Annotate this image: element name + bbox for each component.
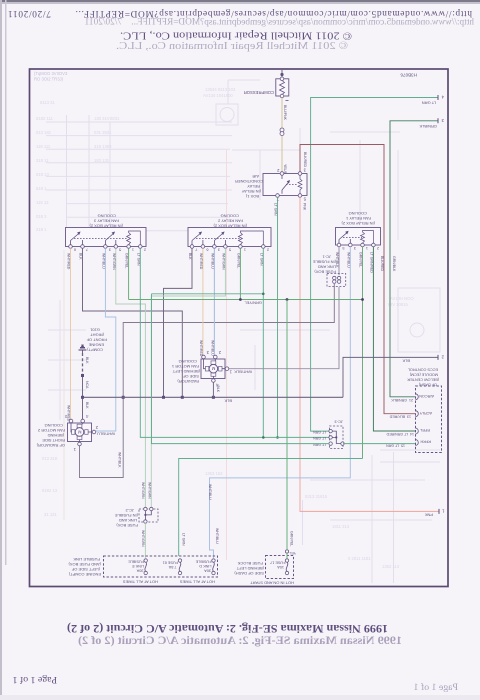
svg-text:COOLING: COOLING [179, 359, 197, 364]
svg-text:JC-3: JC-3 [334, 420, 343, 425]
svg-text:1: 1 [132, 248, 134, 252]
svg-text:FRONT OF: FRONT OF [86, 338, 107, 343]
svg-text:M: M [78, 429, 82, 434]
svg-text:FAN RELAY 2: FAN RELAY 2 [217, 219, 243, 224]
svg-text:8313 31815: 8313 31815 [305, 494, 328, 499]
ghost page number mirrored [414, 682, 458, 693]
JC-3 joint connector [313, 420, 344, 449]
wire compressor to A/C relay (BLU/RED, YEL/BLK) [277, 98, 288, 179]
svg-text:FUSE 61: FUSE 61 [163, 561, 178, 565]
svg-text:ECCS CONTROL: ECCS CONTROL [408, 368, 438, 372]
svg-text:WHT/GRN: WHT/GRN [148, 482, 152, 499]
wire LT GRN JC-3 line3 [152, 294, 330, 444]
svg-text:BLK: BLK [188, 253, 192, 260]
svg-text:(BEHIND LEFT: (BEHIND LEFT [172, 369, 200, 374]
svg-text:M: M [211, 366, 215, 371]
svg-text:(BELOW CENTER: (BELOW CENTER [407, 378, 439, 382]
svg-text:2: 2 [267, 248, 269, 252]
wire BLK motor1 to bus [213, 382, 220, 397]
svg-text:13534 8313 103: 13534 8313 103 [205, 87, 236, 92]
svg-text:© 2011 Mitchell Repair Informa: © 2011 Mitchell Repair Information Co., … [116, 40, 348, 52]
relay2 wire WHT/RED to motor1 [199, 248, 203, 357]
svg-text:3: 3 [109, 248, 111, 252]
svg-text:018 3: 018 3 [36, 214, 47, 219]
svg-text:5: 5 [229, 248, 231, 252]
svg-text:8182 111: 8182 111 [36, 116, 54, 121]
svg-text:BLK: BLK [402, 358, 410, 363]
svg-text:LT GRN/RED: LT GRN/RED [369, 252, 373, 273]
page number [13, 674, 57, 685]
svg-text:GRN/YEL: GRN/YEL [236, 253, 240, 268]
wire BLK ECM ground to bus [343, 354, 444, 397]
svg-text:LT GRN: LT GRN [274, 203, 278, 216]
ECM [407, 368, 441, 453]
svg-text:LT GRN: LT GRN [313, 436, 326, 440]
svg-text:(IN RELAY BOX 2): (IN RELAY BOX 2) [213, 224, 247, 229]
svg-text:HOT AT ALL TIMES: HOT AT ALL TIMES [180, 580, 215, 585]
svg-text:130 31VS831: 130 31VS831 [94, 116, 120, 121]
svg-text:(IN RELAY BOX 2): (IN RELAY BOX 2) [341, 221, 375, 226]
svg-text:Page 1 of 1: Page 1 of 1 [13, 674, 57, 685]
svg-text:BLK: BLK [85, 402, 89, 409]
svg-text:BLK: BLK [216, 386, 220, 393]
svg-text:http://www.ondemand5.com/mric/: http://www.ondemand5.com/mric/common/asp… [8, 8, 472, 18]
svg-text:LINK D: LINK D [199, 564, 211, 568]
wire BLK dashed ground lead [81, 353, 89, 421]
fuse block (dash) with fuse 17 [234, 550, 296, 586]
ground bus BLK horizontal [81, 396, 343, 404]
svg-text:6: 6 [206, 248, 208, 252]
ghost of title (mirrored) [78, 633, 402, 647]
fusible link D [212, 559, 215, 562]
svg-text:COOLING: COOLING [98, 214, 116, 219]
svg-text:21 GRN/BLK: 21 GRN/BLK [391, 398, 413, 402]
svg-text:AIR: AIR [252, 174, 259, 179]
svg-text:BLK: BLK [224, 398, 232, 403]
svg-text:FAN MOTOR 2: FAN MOTOR 2 [37, 428, 65, 433]
svg-text:GRN/BLK: GRN/BLK [392, 256, 396, 272]
svg-text:118 111: 118 111 [36, 144, 51, 149]
svg-text:RELAY: RELAY [247, 184, 260, 189]
fuse 61 [178, 559, 181, 562]
relay2 wire WHT/BLU to motor1 [210, 248, 214, 356]
svg-text:OF DASH): OF DASH) [418, 383, 437, 387]
svg-text:COOLING: COOLING [221, 214, 239, 219]
svg-text:ENGINE COMPT): ENGINE COMPT) [68, 572, 101, 577]
svg-text:1: 1 [244, 248, 246, 252]
svg-text:031 3831: 031 3831 [94, 130, 112, 135]
svg-text:8182 13: 8182 13 [42, 488, 58, 493]
svg-text:013 318: 013 318 [42, 456, 58, 461]
scan edge shading [0, 0, 480, 2]
svg-text:10A: 10A [277, 565, 284, 569]
cooling fan relay 3 [66, 214, 147, 252]
fuse link E [144, 559, 147, 562]
svg-text:BLU/PNK: BLU/PNK [283, 105, 287, 121]
GRN/YEL bus [129, 298, 364, 305]
svg-text:GRN/YEL: GRN/YEL [125, 253, 129, 268]
svg-text:(TqMOO 3VIIOV3: (TqMOO 3VIIOV3 [34, 71, 68, 76]
svg-text:6: 6 [74, 248, 76, 252]
svg-text:LT GRN: LT GRN [313, 442, 326, 446]
relay1 wire WHT/BLU to fusible link D [208, 247, 350, 558]
svg-text:30A: 30A [204, 569, 211, 573]
svg-text:1353 153: 1353 153 [205, 471, 223, 476]
relay3 wire GRN/YEL to bus [125, 248, 129, 299]
relay2 wire BLK to ground bus [164, 248, 193, 397]
svg-text:1999 Nissan Maxima SE-Fig. 2:: 1999 Nissan Maxima SE-Fig. 2: Automatic … [78, 633, 402, 647]
svg-text:LINK AND: LINK AND [119, 518, 137, 523]
relay3 wire LT GRN to JC-3 line [136, 248, 329, 437]
svg-text:013 181: 013 181 [36, 130, 52, 135]
ghost bleedthrough layer [46, 80, 440, 583]
svg-text:(IN FUSIBLE: (IN FUSIBLE [115, 513, 138, 518]
svg-text:WHT/BLU: WHT/BLU [210, 253, 214, 269]
svg-text:LT GRN: LT GRN [182, 533, 186, 546]
footer url line [8, 8, 472, 18]
svg-text:SIDE OF: SIDE OF [182, 374, 199, 379]
svg-text:GRN/YEL: GRN/YEL [359, 252, 363, 267]
svg-text:WHT/RED: WHT/RED [199, 340, 203, 357]
relay1 wire WHT/BLK through JC-1 to motor1 [228, 247, 339, 369]
svg-text:RFRL: RFRL [420, 428, 430, 432]
relay3 wire WHT/GRN to JC-2 [112, 248, 146, 507]
relay1 wire LT GRN/RED to ECM RFRL [369, 247, 415, 436]
svg-text:118 13: 118 13 [36, 200, 49, 205]
svg-text:BLK: BLK [85, 357, 89, 364]
svg-text:FUSE BOX): FUSE BOX) [314, 270, 336, 275]
cooling fan relay 1 [336, 211, 381, 250]
svg-text:15 LT GRN: 15 LT GRN [386, 444, 405, 448]
svg-text:1353 113: 1353 113 [382, 564, 400, 569]
svg-text:8113 31: 8113 31 [40, 100, 55, 105]
svg-text:WHT/BLU: WHT/BLU [215, 528, 219, 544]
svg-text:FUSIBLE: FUSIBLE [128, 560, 144, 564]
svg-text:2: 2 [377, 246, 379, 250]
svg-text:BOX 1): BOX 1) [245, 194, 259, 199]
diagram frame [30, 69, 449, 587]
svg-text:318 11: 318 11 [36, 158, 49, 163]
svg-text:AV134 1041800: AV134 1041800 [203, 93, 233, 98]
wire LT GRN fuse 61 to relay1 [179, 459, 363, 557]
GRN/YEL branch to fuse 17 [287, 300, 294, 552]
inline connector [280, 128, 284, 132]
svg-text:HOT IN ON AND START: HOT IN ON AND START [250, 581, 294, 586]
svg-text:318 1383: 318 1383 [94, 144, 112, 149]
svg-text:COOLING: COOLING [349, 211, 367, 216]
svg-text:7: 7 [86, 248, 88, 252]
fusible link and fuse box (engine compt) [68, 556, 218, 585]
svg-text:WHT/GRN: WHT/GRN [112, 253, 116, 270]
svg-text:SIDE OF DASH): SIDE OF DASH) [234, 571, 264, 576]
svg-text:LT GRN: LT GRN [259, 253, 263, 266]
page title [67, 622, 388, 636]
svg-text:RIGHT SIDE: RIGHT SIDE [42, 438, 65, 443]
svg-text:LT GRN: LT GRN [136, 253, 140, 266]
svg-text:HOT AT ALL TIMES: HOT AT ALL TIMES [123, 580, 158, 585]
svg-text:JC-1: JC-1 [322, 255, 331, 260]
svg-text:(LEFT SIDE OF: (LEFT SIDE OF [71, 567, 100, 572]
svg-text:Page 1 of 1: Page 1 of 1 [414, 682, 458, 693]
svg-text:GRN/YEL: GRN/YEL [244, 301, 262, 306]
relay2 wire LT GRN to JC-3 pin1 [152, 248, 265, 438]
JC-2 joint connector [115, 507, 158, 558]
svg-text:HIV 10815: HIV 10815 [388, 302, 408, 307]
svg-text:COMPRESSOR: COMPRESSOR [244, 90, 274, 95]
svg-text:31 131: 31 131 [44, 512, 57, 517]
svg-text:FUSIBLE LINK: FUSIBLE LINK [73, 557, 100, 562]
svg-text:FUSE BLOCK: FUSE BLOCK [237, 561, 263, 566]
svg-text:(IN RELAY: (IN RELAY [241, 189, 261, 194]
svg-text:JC-2: JC-2 [125, 508, 134, 513]
svg-text:(BEHIND: (BEHIND [47, 433, 64, 438]
svg-text:WHT/GRN: WHT/GRN [141, 530, 145, 547]
cooling fan motor 2 [36, 414, 96, 452]
svg-text:30A: 30A [136, 569, 143, 573]
svg-text:LT GRN: LT GRN [313, 430, 326, 434]
svg-text:7: 7 [195, 248, 197, 252]
wire WHT/BLK motor2 bottom to ground bus [80, 284, 335, 478]
svg-text:ACRLY: ACRLY [419, 411, 432, 415]
svg-text:3: 3 [218, 248, 220, 252]
svg-text:WHT/BLU: WHT/BLU [346, 252, 350, 268]
footer copyright line [120, 30, 352, 42]
relay2 wire WHT/GRN to JC-2 and fuse [141, 248, 225, 547]
svg-text:LINK AND: LINK AND [318, 265, 336, 270]
wire LT GRN JC-3 output to ECM RFRH [343, 444, 415, 448]
svg-text:PNK: PNK [424, 512, 433, 517]
svg-text:(IN FUSIBLE: (IN FUSIBLE [313, 260, 336, 265]
cooling fan relay 2 [188, 214, 271, 252]
svg-text:FAN MOTOR 1: FAN MOTOR 1 [171, 364, 199, 369]
svg-text:WHT/RED: WHT/RED [199, 253, 203, 270]
svg-text:H3B076: H3B076 [400, 73, 417, 78]
svg-text:0 2811 1181: 0 2811 1181 [348, 556, 371, 561]
relay2 wire GRN/YEL to bus [236, 248, 240, 299]
wire GRN/BLK off-page pin 3 to ECM AIRCON [390, 118, 444, 402]
svg-text:LT GRN: LT GRN [422, 101, 436, 106]
cooling fan motor 1 [171, 350, 252, 388]
svg-text:ENGINE: ENGINE [88, 343, 104, 348]
svg-text:WHT/BLU: WHT/BLU [210, 340, 214, 356]
svg-text:BLK/RED: BLK/RED [380, 256, 384, 271]
svg-text:FAN RELAY 3: FAN RELAY 3 [93, 219, 119, 224]
svg-text:MODULE (ECM): MODULE (ECM) [409, 373, 438, 377]
svg-text:FAN RELAY 1: FAN RELAY 1 [345, 216, 371, 221]
svg-text:FUSE 17: FUSE 17 [270, 561, 285, 565]
svg-text:WHT/BLU: WHT/BLU [97, 432, 115, 437]
svg-text:BLK/RED: BLK/RED [303, 152, 307, 167]
wire LT GRN off-page pin 4 [311, 95, 444, 432]
svg-text:13 BLK/RED: 13 BLK/RED [389, 415, 411, 419]
svg-text:018 13: 018 13 [36, 172, 49, 177]
wire LT GRN below A/C relay to JC-3 [274, 197, 279, 438]
svg-text:WHT/BLK: WHT/BLK [118, 452, 122, 468]
svg-text:WHT/GRN: WHT/GRN [221, 253, 225, 270]
svg-text:5: 5 [342, 246, 344, 250]
svg-text:(IN RELAY BOX 2): (IN RELAY BOX 2) [89, 224, 123, 229]
svg-text:http://www.ondemand5.com/mric/: http://www.ondemand5.com/mric/common/asp… [84, 18, 474, 28]
ghost of copyright (mirrored) [84, 18, 474, 53]
svg-text:(BEHIND LEFT: (BEHIND LEFT [236, 566, 264, 571]
svg-text:3: 3 [354, 246, 356, 250]
svg-text:WHT/RED: WHT/RED [67, 253, 71, 270]
compressor C1 [244, 70, 289, 101]
svg-text:RO 3OI2 TR3J): RO 3OI2 TR3J) [34, 77, 64, 82]
svg-text:1: 1 [366, 246, 368, 250]
svg-text:AIRCON: AIRCON [419, 394, 434, 398]
svg-text:CONDITIONER: CONDITIONER [235, 179, 263, 184]
svg-text:14 LT GRN/RED: 14 LT GRN/RED [386, 432, 414, 436]
svg-text:518 1: 518 1 [36, 186, 47, 191]
svg-text:BLK: BLK [79, 253, 83, 260]
relay3 wire BLK to ground bus [79, 248, 183, 397]
svg-text:1811 313: 1811 313 [332, 524, 350, 529]
svg-text:NCA: NCA [85, 381, 89, 389]
svg-text:WHT/BLK: WHT/BLK [234, 370, 252, 375]
JC-1 joint connector [313, 255, 346, 287]
svg-text:(AND FUSE BOX): (AND FUSE BOX) [68, 562, 101, 567]
svg-text:218 1: 218 1 [36, 227, 47, 232]
svg-text:FUSIBLE: FUSIBLE [195, 560, 211, 564]
svg-text:COMPT): COMPT) [87, 348, 103, 353]
svg-text:AV13H NOO: AV13H NOO [390, 296, 414, 301]
MAIN DIAGRAM [36, 70, 444, 586]
svg-text:WHT/BLU: WHT/BLU [208, 484, 212, 500]
svg-text:YEL: YEL [289, 551, 296, 555]
relay1 wire GRN/YEL joins bus [359, 247, 363, 459]
svg-text:COOLING: COOLING [45, 423, 63, 428]
svg-text:7.5A: 7.5A [168, 565, 176, 569]
svg-text:183 131: 183 131 [94, 158, 110, 163]
svg-text:RADIATOR): RADIATOR) [177, 379, 199, 384]
A/C relay (air conditioner relay) [235, 168, 307, 202]
svg-text:WHT/GRN: WHT/GRN [141, 482, 145, 499]
svg-text:(RIGHT: (RIGHT [90, 333, 104, 338]
svg-text:FUSE BOX): FUSE BOX) [116, 523, 138, 528]
svg-text:GRN/BLK: GRN/BLK [419, 124, 437, 129]
svg-text:PNK: PNK [303, 203, 307, 211]
relay3 wire WHT/BLU to motor2 right pin [95, 248, 116, 436]
svg-text:2: 2 [144, 248, 146, 252]
svg-text:OF RADIATOR): OF RADIATOR) [36, 443, 65, 448]
svg-text:GRN/YEL: GRN/YEL [290, 531, 294, 546]
svg-text:LINK E: LINK E [132, 564, 144, 568]
svg-text:RFRH: RFRH [420, 440, 431, 444]
relay3 wire WHT/RED to motor2 [67, 248, 71, 422]
wire PNK below A/C relay to off-page pin 1 [300, 197, 445, 517]
svg-text:5: 5 [119, 248, 121, 252]
wire BLK/RED A/C relay coil to ECM ACRLY [300, 145, 415, 419]
ground G101 [79, 328, 108, 354]
svg-text:G101: G101 [89, 328, 100, 333]
svg-text:WHT/BLU: WHT/BLU [101, 253, 105, 269]
